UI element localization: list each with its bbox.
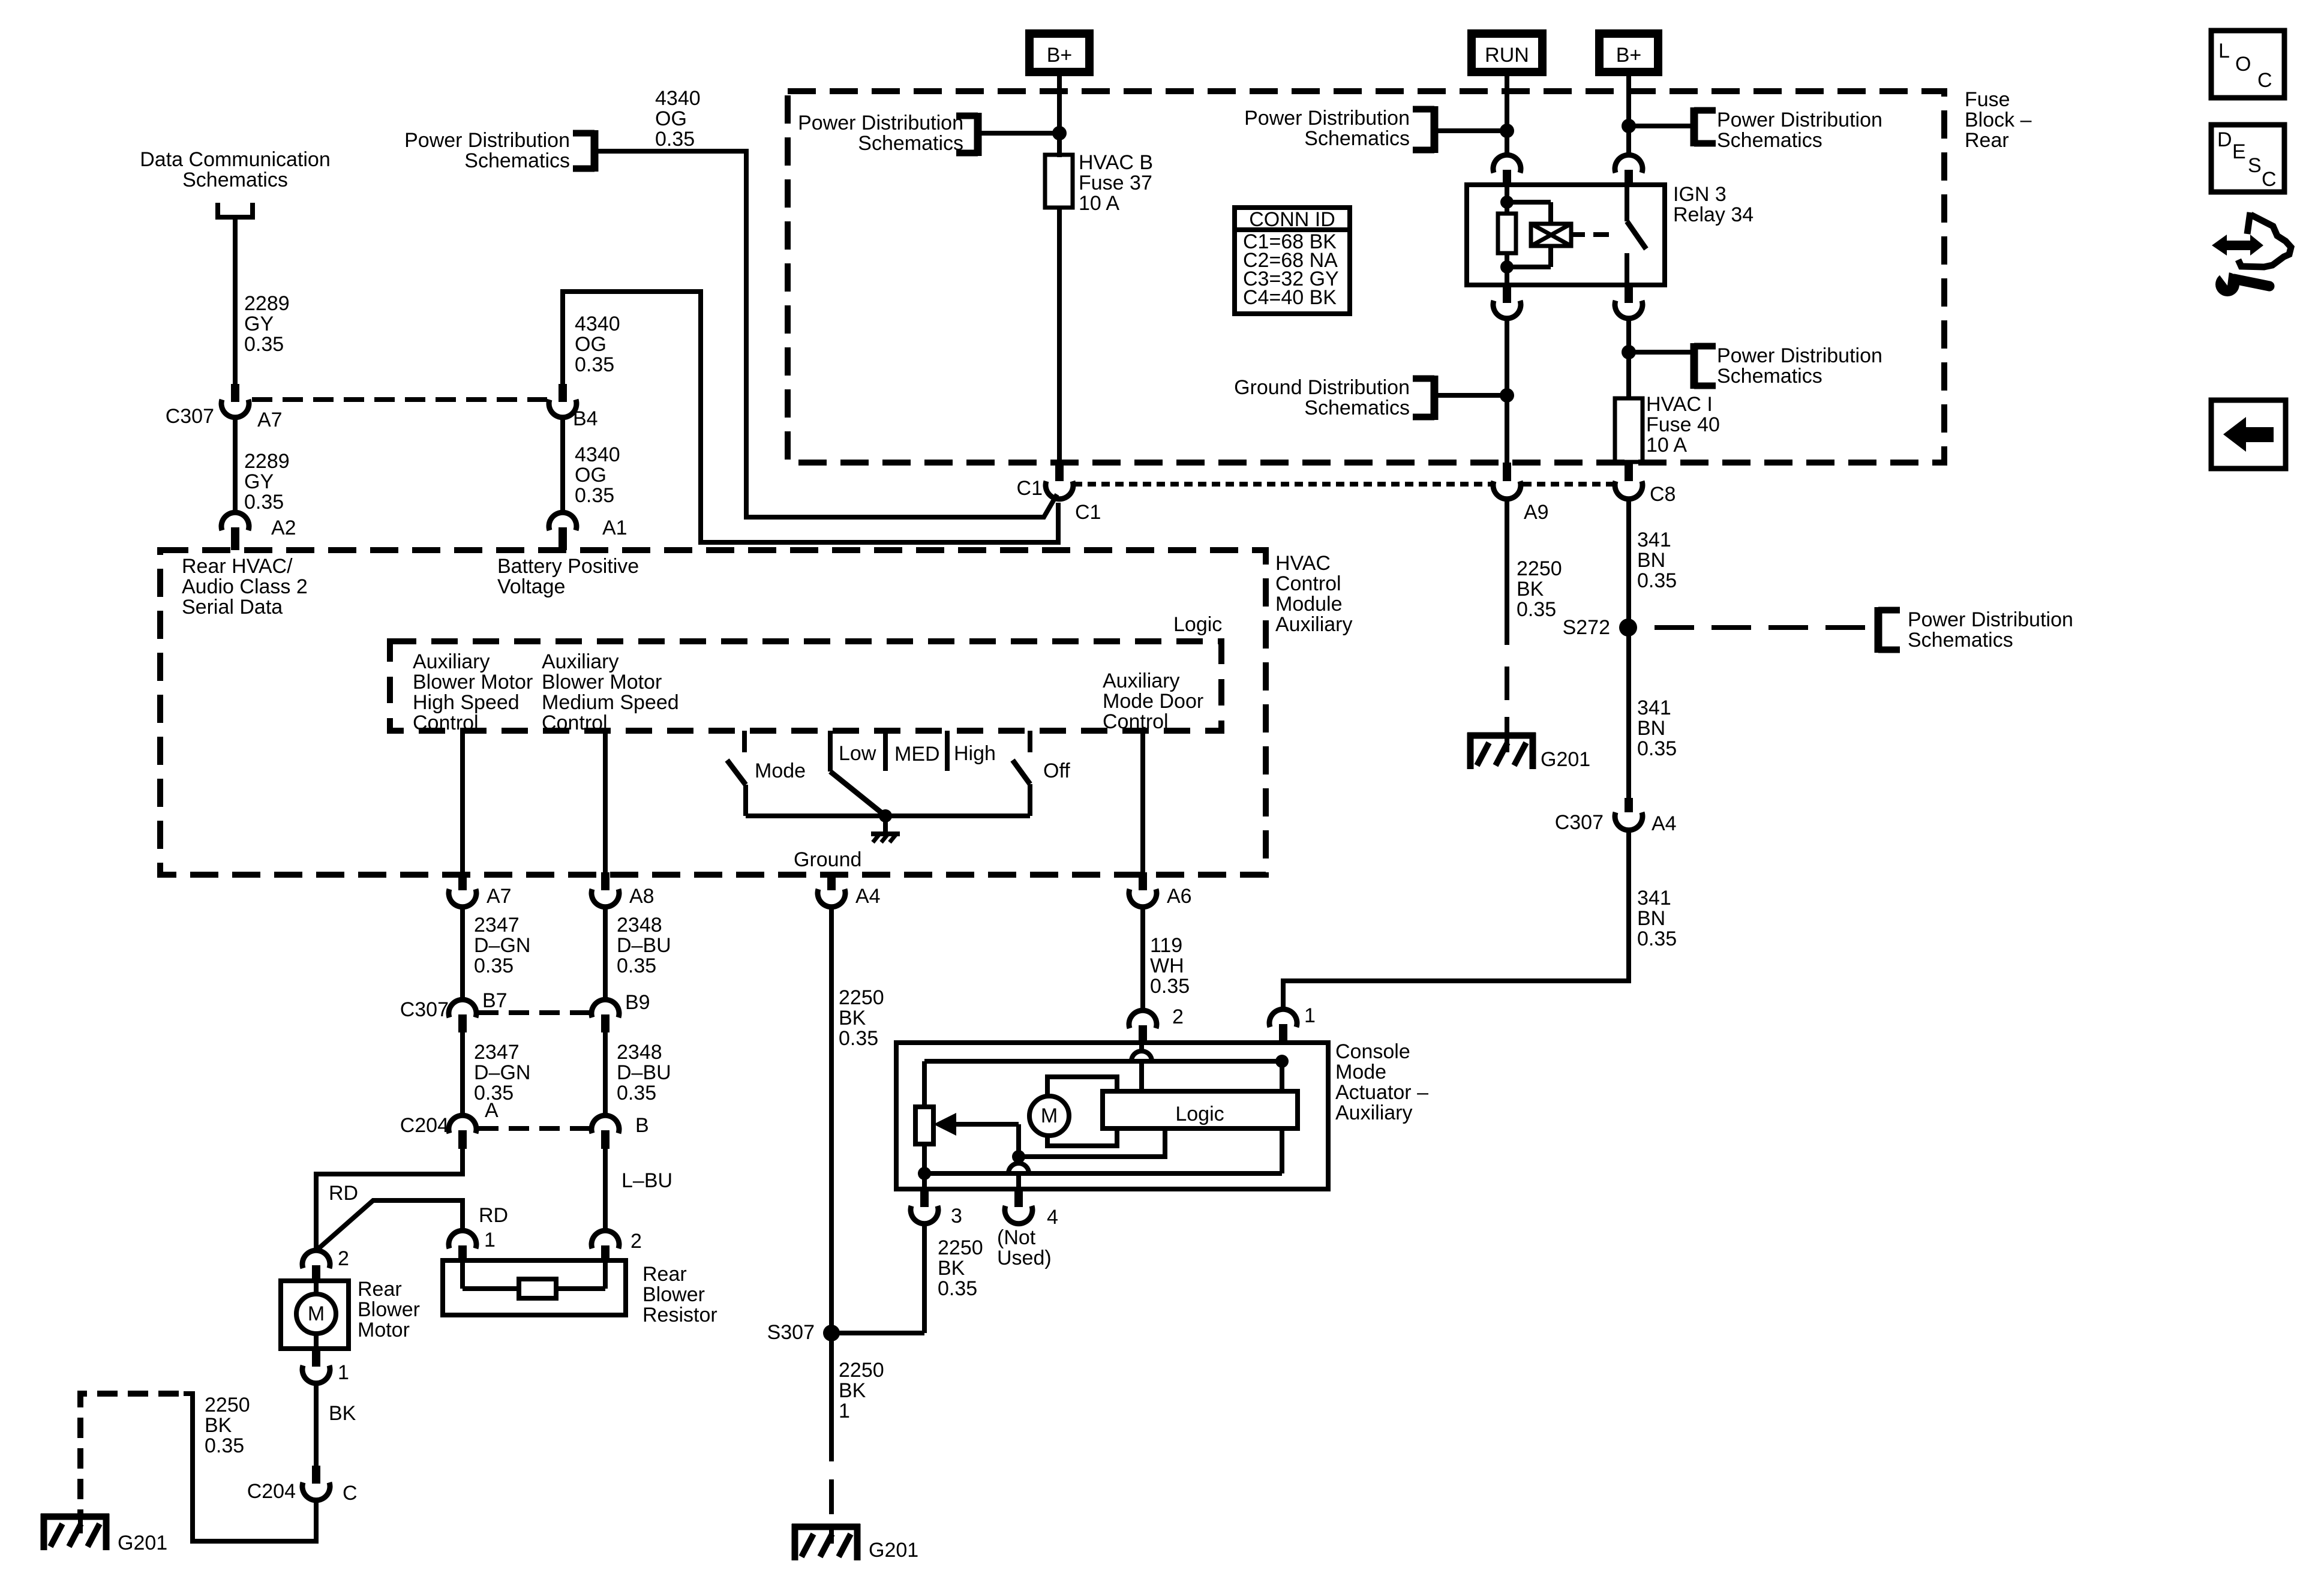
svg-text:BN: BN: [1637, 717, 1665, 740]
svg-text:Power Distribution: Power Distribution: [1908, 608, 2073, 631]
svg-text:D–GN: D–GN: [474, 1061, 530, 1084]
connector C204 A (in-line): [400, 1099, 499, 1149]
connector A4 (module bottom): [818, 872, 881, 908]
node: switch common junction: [879, 809, 892, 822]
switch High contact: [947, 731, 996, 771]
wire RUN to relay: [1505, 74, 1509, 155]
svg-text:Control: Control: [1275, 572, 1341, 595]
svg-text:Mode: Mode: [1335, 1061, 1386, 1083]
svg-text:WH: WH: [1150, 954, 1184, 977]
svg-text:C4=40 BK: C4=40 BK: [1243, 286, 1337, 309]
svg-text:4340: 4340: [575, 443, 620, 466]
svg-text:0.35: 0.35: [938, 1277, 977, 1300]
svg-text:341: 341: [1637, 887, 1671, 909]
svg-text:Blower: Blower: [642, 1283, 705, 1306]
svg-text:0.35: 0.35: [474, 954, 514, 977]
svg-text:Audio Class 2: Audio Class 2: [182, 575, 308, 598]
wire label 4340 OG 0.35 (top): [655, 87, 701, 151]
console motor M circle: [1029, 1096, 1069, 1136]
svg-text:G201: G201: [118, 1532, 167, 1554]
node: junction dot fuse40/power distribution: [1622, 345, 1636, 359]
wire 2347 D-GN lower: [463, 1032, 530, 1117]
wire 2347 D-GN upper: [463, 907, 530, 999]
svg-text:0.35: 0.35: [1637, 737, 1677, 760]
wire BK motor to C204 C: [316, 1383, 356, 1466]
connector A6 (module bottom): [1129, 872, 1192, 908]
svg-text:B9: B9: [625, 991, 650, 1014]
svg-text:1: 1: [484, 1229, 496, 1251]
power flag RUN: [1472, 34, 1542, 72]
label HVAC Control Module Auxiliary: [1275, 552, 1352, 636]
relay bottom left pin/cup: [1493, 285, 1521, 319]
svg-text:G201: G201: [869, 1539, 918, 1562]
console inner: bottom bus: [924, 1144, 1282, 1173]
svg-text:Auxiliary: Auxiliary: [1103, 670, 1179, 692]
svg-text:M: M: [1041, 1104, 1058, 1127]
wire module high speed stub: [460, 732, 465, 872]
module logic inner dashed box: [390, 641, 1221, 731]
svg-text:BK: BK: [839, 1007, 866, 1029]
svg-text:BK: BK: [938, 1257, 965, 1280]
svg-text:RD: RD: [479, 1204, 508, 1227]
svg-text:Auxiliary: Auxiliary: [1335, 1101, 1412, 1124]
svg-text:1: 1: [1304, 1004, 1316, 1027]
fuse block rear dashed box: [788, 91, 1944, 463]
svg-text:C8: C8: [1650, 483, 1676, 506]
wire C307 A4 down to console pin 1: [1283, 830, 1629, 1009]
dashed connector line C307 A7-B4: [252, 397, 547, 402]
console mode actuator box: [896, 1043, 1328, 1189]
svg-text:2250: 2250: [205, 1394, 250, 1416]
svg-text:Power Distribution: Power Distribution: [1717, 344, 1882, 367]
svg-text:Auxiliary: Auxiliary: [413, 650, 490, 673]
svg-text:10 A: 10 A: [1079, 192, 1119, 215]
label Auxiliary Blower Motor Medium Speed Control: [542, 650, 679, 734]
wire 2289 GY to C307 A7: [233, 217, 238, 385]
console motor box: [1047, 1077, 1117, 1146]
svg-text:D–BU: D–BU: [617, 1061, 671, 1084]
node S272 splice: [1563, 616, 1637, 639]
connector pin 2 rear blower motor: [302, 1247, 349, 1281]
svg-text:0.35: 0.35: [205, 1434, 244, 1457]
off-page ref Power Distribution Schematics (S272): [1878, 607, 2073, 653]
node: dot pin1 bus: [1275, 1055, 1289, 1068]
relay IGN 3 Relay 34 box: [1467, 185, 1665, 285]
label Auxiliary Blower Motor High Speed Control: [413, 650, 533, 734]
wire pin 3 to S307 rail: [922, 1224, 927, 1333]
wire label 2289 GY 0.35 (lower): [244, 450, 290, 514]
svg-text:A2: A2: [271, 517, 296, 539]
svg-text:2250: 2250: [839, 986, 884, 1009]
svg-text:2: 2: [1172, 1005, 1184, 1028]
svg-text:Logic: Logic: [1175, 1103, 1224, 1125]
svg-text:Ground: Ground: [794, 848, 861, 871]
svg-text:Power Distribution: Power Distribution: [404, 129, 570, 152]
svg-text:Schematics: Schematics: [182, 169, 288, 191]
svg-text:A4: A4: [1652, 812, 1677, 835]
svg-text:M: M: [308, 1302, 325, 1325]
dashed wire to G201 (bottom left): [80, 1394, 179, 1514]
wire relay left to A9: [1505, 319, 1509, 463]
wire RD motor to resistor pin 1: [318, 1200, 463, 1249]
svg-text:S: S: [2248, 154, 2262, 177]
wire label 2250 BK 0.35 (A4): [839, 986, 884, 1050]
svg-text:2289: 2289: [244, 292, 290, 315]
node: dot bottom bus left: [918, 1167, 931, 1180]
label Rear Blower Motor: [358, 1278, 420, 1341]
svg-text:C1: C1: [1075, 501, 1101, 524]
svg-text:Rear: Rear: [358, 1278, 402, 1301]
node: junction dot B+2/power distribution: [1622, 119, 1636, 133]
off-page ref Power Distribution Schematics (left of B+ fuse): [798, 112, 978, 156]
svg-text:C307: C307: [166, 405, 214, 428]
svg-text:Resistor: Resistor: [642, 1304, 717, 1326]
svg-text:G201: G201: [1541, 748, 1590, 771]
svg-text:RUN: RUN: [1485, 44, 1529, 67]
svg-text:341: 341: [1637, 529, 1671, 551]
svg-text:CONN ID: CONN ID: [1249, 208, 1335, 231]
wire B+ to fuse 37: [1057, 76, 1062, 157]
wire label 341 BN 0.35 (1): [1637, 529, 1677, 592]
connector C307 B9 (in-line): [591, 991, 650, 1032]
power flag B+ (right): [1599, 34, 1658, 72]
connector C204 B (in-line): [591, 1114, 649, 1149]
wire label 2250 BK 0.35 (A9): [1517, 557, 1562, 621]
off-page ref Power Distribution Schematics (top left, 4340 OG): [404, 129, 594, 172]
off-page ref Power Distribution Schematics (right mid): [1629, 343, 1882, 389]
svg-text:0.35: 0.35: [575, 353, 614, 376]
svg-text:B+: B+: [1047, 44, 1073, 67]
svg-text:Medium Speed: Medium Speed: [542, 691, 679, 714]
connector A9 at fuse block: [1493, 463, 1549, 524]
svg-text:O: O: [2235, 53, 2251, 76]
svg-text:Actuator –: Actuator –: [1335, 1081, 1428, 1104]
wire label 2250 BK 0.35 (bottom left): [205, 1394, 250, 1457]
svg-text:BK: BK: [1517, 578, 1544, 601]
svg-text:Control: Control: [1103, 710, 1169, 733]
relay coil resistor: [1498, 185, 1516, 285]
svg-text:HVAC I: HVAC I: [1646, 393, 1713, 416]
svg-text:2: 2: [630, 1230, 642, 1253]
svg-text:A9: A9: [1524, 501, 1549, 524]
svg-text:C: C: [343, 1482, 358, 1505]
connector cup into relay switch (top right): [1615, 155, 1643, 185]
wire label 2250 BK 0.35 (pin 3): [938, 1236, 983, 1300]
label Rear HVAC / Audio Class 2 Serial Data: [182, 555, 308, 619]
svg-text:IGN 3: IGN 3: [1673, 183, 1727, 206]
wire label RD (2): [479, 1204, 508, 1227]
sidebar LOC button: [2211, 31, 2284, 98]
wire B+ right to relay: [1626, 75, 1631, 155]
console inner: pin1 bus to potentiometer: [924, 1061, 1282, 1107]
svg-text:BN: BN: [1637, 549, 1665, 572]
svg-text:0.35: 0.35: [1637, 927, 1677, 950]
label Console Mode Actuator - Auxiliary: [1335, 1040, 1428, 1124]
connector A2 into module: [221, 512, 296, 550]
svg-text:1: 1: [338, 1361, 349, 1384]
svg-text:Schematics: Schematics: [464, 149, 570, 172]
svg-text:A6: A6: [1167, 885, 1192, 908]
wire B4 riser to C1: [563, 292, 1058, 542]
svg-text:S307: S307: [767, 1321, 815, 1344]
connector pin 1 console actuator: [1269, 1004, 1316, 1043]
svg-text:A7: A7: [487, 885, 512, 908]
connector pin 2 console actuator: [1129, 1005, 1184, 1043]
wire label RD (1): [329, 1182, 358, 1205]
wire L-BU from C204 B to resistor pin 2: [605, 1149, 672, 1232]
svg-text:OG: OG: [655, 107, 687, 130]
connector C307 A7 (in-line): [166, 384, 283, 431]
wire C8 341 BN: [1626, 499, 1631, 798]
wire pin 4 with hop over bottom bus: [1008, 1163, 1029, 1189]
svg-text:E: E: [2232, 140, 2246, 163]
svg-text:BK: BK: [839, 1379, 866, 1402]
connector A1 into module: [549, 512, 627, 550]
svg-text:Schematics: Schematics: [1304, 397, 1410, 419]
svg-text:L: L: [2218, 40, 2230, 62]
svg-text:Power Distribution: Power Distribution: [1717, 109, 1882, 131]
svg-text:Relay 34: Relay 34: [1673, 203, 1753, 226]
svg-text:S272: S272: [1563, 616, 1610, 639]
CONN ID table: [1235, 208, 1350, 314]
node: junction dot ground distribution: [1500, 388, 1514, 403]
sidebar wrench icon: [2215, 266, 2269, 296]
svg-text:Serial Data: Serial Data: [182, 596, 283, 619]
svg-text:Fuse 37: Fuse 37: [1079, 172, 1152, 194]
dotted in-line connector line C1 to C8: [1074, 482, 1614, 487]
dashed connector line C204 A-B: [478, 1126, 591, 1131]
svg-text:D–GN: D–GN: [474, 934, 530, 957]
svg-text:Rear HVAC/: Rear HVAC/: [182, 555, 293, 578]
svg-text:4340: 4340: [575, 313, 620, 335]
svg-text:Mode: Mode: [755, 760, 806, 782]
svg-text:4: 4: [1047, 1206, 1058, 1229]
wire label 119 WH 0.35: [1150, 934, 1190, 998]
wire pin 2 to logic (with hop): [1131, 1043, 1152, 1091]
node: dot wiper junction: [1012, 1150, 1025, 1163]
svg-text:Used): Used): [997, 1247, 1052, 1269]
connector C307 B7 (in-line): [400, 989, 508, 1032]
switch Low contact (closed blade): [830, 731, 885, 816]
svg-text:4340: 4340: [655, 87, 701, 110]
svg-text:1: 1: [839, 1400, 850, 1422]
console logic box: [1103, 1091, 1298, 1128]
rear blower motor M: [281, 1281, 349, 1349]
svg-text:Power Distribution: Power Distribution: [798, 112, 963, 134]
svg-text:2347: 2347: [474, 914, 520, 936]
svg-text:2250: 2250: [938, 1236, 983, 1259]
dashed connector line C307 B7-B9: [478, 1010, 591, 1015]
svg-text:2348: 2348: [617, 914, 662, 936]
wire 2348 D-BU lower: [605, 1032, 671, 1117]
svg-text:High: High: [954, 742, 996, 765]
node: junction dot RUN/power distribution: [1500, 124, 1514, 138]
svg-text:Fuse: Fuse: [1965, 88, 2010, 111]
potentiometer wiper arrow: [933, 1113, 1019, 1156]
svg-text:Schematics: Schematics: [1717, 129, 1822, 152]
switch Mode: [727, 731, 806, 816]
potentiometer: [915, 1107, 933, 1144]
wire S307 to console pin 3: [831, 1331, 924, 1335]
label IGN 3 Relay 34: [1673, 183, 1753, 226]
wire label 4340 OG 0.35 (above B4... below): [575, 313, 620, 376]
svg-text:119: 119: [1150, 934, 1182, 957]
svg-text:A4: A4: [855, 885, 881, 908]
HVAC Control Module Auxiliary dashed box: [160, 550, 1266, 875]
connector cup into relay coil (top left): [1493, 155, 1521, 185]
svg-text:A: A: [485, 1099, 499, 1122]
switch common rail: [746, 813, 1030, 818]
off-page ref Power Distribution Schematics (inside fuse block, left): [1244, 106, 1507, 153]
label Logic: [1173, 613, 1222, 636]
off-page ref Ground Distribution Schematics: [1234, 376, 1507, 420]
svg-text:GY: GY: [244, 470, 274, 493]
svg-text:Schematics: Schematics: [1717, 365, 1822, 388]
svg-text:Control: Control: [542, 712, 608, 734]
wire label 341 BN 0.35 (3): [1637, 887, 1677, 950]
svg-text:D–BU: D–BU: [617, 934, 671, 957]
svg-text:Voltage: Voltage: [497, 575, 565, 598]
label Fuse Block - Rear: [1965, 88, 2032, 152]
svg-text:0.35: 0.35: [617, 954, 656, 977]
svg-text:BK: BK: [205, 1414, 232, 1437]
svg-text:GY: GY: [244, 313, 274, 335]
connector pin 2 rear blower resistor: [591, 1230, 642, 1260]
svg-text:Console: Console: [1335, 1040, 1410, 1063]
svg-text:0.35: 0.35: [839, 1027, 878, 1050]
wire bracket to B+ line: [978, 131, 1059, 136]
svg-text:Mode Door: Mode Door: [1103, 690, 1203, 713]
wire bracket to C1 (4340 OG): [594, 151, 1057, 517]
svg-text:341: 341: [1637, 697, 1671, 719]
wire 119 WH A6 to console pin 2: [1140, 907, 1145, 1010]
wire wiper to logic: [1019, 1131, 1165, 1157]
svg-text:B+: B+: [1616, 44, 1642, 67]
svg-text:Rear: Rear: [642, 1263, 687, 1286]
relay coil-to-switch dashed link: [1571, 232, 1620, 237]
svg-text:B4: B4: [573, 407, 598, 430]
svg-text:C307: C307: [400, 998, 449, 1021]
svg-text:A7: A7: [257, 409, 283, 431]
svg-text:BK: BK: [329, 1402, 356, 1425]
label (Not Used): [997, 1226, 1052, 1269]
svg-text:B7: B7: [482, 989, 508, 1012]
fuse HVAC I Fuse 40 10A: [1615, 393, 1720, 462]
svg-text:Battery Positive: Battery Positive: [497, 555, 639, 578]
connector C307 A4 (right, in-line): [1555, 798, 1677, 835]
connector C204 C (in-line): [247, 1466, 358, 1505]
svg-text:Rear: Rear: [1965, 129, 2009, 152]
svg-text:High Speed: High Speed: [413, 691, 520, 714]
connector pin 3 console actuator: [911, 1173, 962, 1227]
svg-text:(Not: (Not: [997, 1226, 1036, 1249]
svg-text:C: C: [2257, 69, 2272, 92]
svg-text:RD: RD: [329, 1182, 358, 1205]
connector pin 1 rear blower motor: [302, 1349, 349, 1384]
wire label 4340 OG 0.35 (below B4): [575, 443, 620, 507]
svg-text:BN: BN: [1637, 907, 1665, 930]
svg-text:A1: A1: [602, 517, 627, 539]
svg-text:C204: C204: [400, 1114, 449, 1137]
svg-text:C307: C307: [1555, 811, 1604, 834]
relay coil winding (X box): [1507, 202, 1571, 267]
rear blower resistor box: [443, 1260, 626, 1315]
svg-text:Schematics: Schematics: [858, 132, 963, 155]
wire S307 to G201: [829, 1333, 834, 1514]
wire A7 to A2: [233, 418, 238, 512]
relay bottom right pin/cup: [1615, 285, 1643, 319]
svg-text:MED: MED: [894, 743, 940, 766]
svg-text:10 A: 10 A: [1646, 434, 1687, 457]
node S307 splice: [767, 1321, 840, 1344]
svg-text:Logic: Logic: [1173, 613, 1222, 636]
internal chassis ground of switch: [871, 816, 900, 842]
svg-text:2347: 2347: [474, 1041, 520, 1064]
svg-text:HVAC: HVAC: [1275, 552, 1331, 575]
label Rear Blower Resistor: [642, 1263, 717, 1326]
label Auxiliary Mode Door Control: [1103, 670, 1203, 733]
connector B4 (in-line C307): [549, 384, 598, 430]
sidebar DESC button: [2211, 125, 2284, 192]
wire A9 2250 BK: [1505, 499, 1509, 645]
wire B4 to A1: [560, 418, 565, 512]
svg-text:Auxiliary: Auxiliary: [542, 650, 618, 673]
connector C8 at fuse block: [1615, 463, 1676, 506]
svg-text:Auxiliary: Auxiliary: [1275, 613, 1352, 636]
ground G201 (bottom left): [41, 1514, 167, 1554]
svg-text:0.35: 0.35: [244, 333, 284, 356]
svg-text:C204: C204: [247, 1480, 296, 1503]
svg-text:Control: Control: [413, 712, 479, 734]
wire C204 C to G201 (solid part): [184, 1394, 316, 1541]
svg-text:Ground Distribution: Ground Distribution: [1234, 376, 1410, 399]
wire label 2289 GY 0.35 (upper): [244, 292, 290, 356]
wire module mode door stub: [1140, 732, 1145, 872]
dashed ref wire S272 to power distribution: [1655, 625, 1875, 630]
svg-text:C1: C1: [1017, 477, 1043, 500]
wire RD from C204 A to motor pin 2: [316, 1149, 463, 1251]
wire 2348 D-BU upper: [605, 907, 671, 999]
wire label 2250 BK 1: [839, 1359, 884, 1422]
svg-text:B: B: [635, 1114, 649, 1137]
svg-text:Fuse 40: Fuse 40: [1646, 413, 1720, 436]
off-page ref Power Distribution Schematics (right of B+ 2): [1629, 107, 1882, 152]
svg-text:Block –: Block –: [1965, 109, 2032, 131]
svg-text:Schematics: Schematics: [1908, 629, 2013, 652]
node: junction dot B+/power distribution: [1052, 126, 1067, 140]
svg-text:Off: Off: [1043, 760, 1070, 782]
sidebar vehicle icon: [2238, 212, 2291, 267]
sidebar double arrow: [2212, 235, 2263, 256]
svg-text:0.35: 0.35: [1637, 569, 1677, 592]
svg-text:Motor: Motor: [358, 1319, 410, 1341]
svg-text:C: C: [2262, 168, 2277, 191]
wire label 341 BN 0.35 (2): [1637, 697, 1677, 760]
svg-text:HVAC B: HVAC B: [1079, 151, 1153, 174]
ground G201 (A9 branch): [1467, 733, 1590, 771]
svg-text:0.35: 0.35: [1150, 975, 1190, 998]
svg-text:L–BU: L–BU: [621, 1169, 672, 1192]
power flag B+ (left): [1029, 34, 1089, 72]
svg-text:0.35: 0.35: [617, 1082, 656, 1104]
svg-text:3: 3: [951, 1205, 962, 1227]
fuse HVAC B Fuse 37 10A: [1045, 151, 1153, 215]
wire module medium speed stub: [603, 732, 608, 872]
svg-text:A8: A8: [629, 885, 654, 908]
svg-text:Data Communication: Data Communication: [140, 148, 330, 171]
svg-text:OG: OG: [575, 464, 606, 487]
svg-text:2250: 2250: [839, 1359, 884, 1382]
